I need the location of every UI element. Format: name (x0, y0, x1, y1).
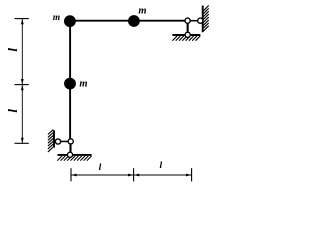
left dimension tick bottom (15, 142, 29, 144)
left dimension arrow up (below middle tick) (21, 85, 24, 90)
pin C (roller on ground) (67, 152, 72, 157)
label l (bottom right segment) (159, 161, 162, 171)
link pin B to pin C (69, 141, 71, 154)
wall left hatching (48, 130, 53, 152)
wall right hatching (203, 6, 208, 32)
svg-text:m: m (79, 78, 87, 89)
ground hatching under pin C (57, 156, 91, 161)
svg-text:m: m (138, 6, 146, 17)
mass m2 (ball on beam) (128, 15, 140, 27)
label m of mass m2 (138, 6, 146, 17)
pin E (roller to right wall) (198, 18, 203, 23)
link pin A to pin B (58, 140, 71, 142)
svg-text:m: m (53, 13, 60, 23)
label l (bottom left segment) (99, 163, 102, 173)
pin D (main pin at beam end) (185, 18, 190, 23)
left dimension arrow up (top) (21, 19, 24, 24)
bottom dimension tick left (70, 168, 72, 181)
bottom dimension arrow left (71, 174, 76, 177)
left dimension arrow down (above middle tick) (21, 79, 24, 84)
left dimension tick middle (15, 84, 29, 86)
wire: vertical column member (69, 20, 71, 141)
bottom dimension arrow into middle from right (134, 174, 139, 177)
mass m1 (corner ball) (64, 15, 76, 27)
wall left (support) (53, 130, 55, 147)
left dimension arrow down (bottom) (21, 138, 24, 143)
pin B (main pin at column base) (68, 139, 73, 144)
left dimension line (vertical) (21, 19, 23, 144)
mass m3 (ball on column) (64, 78, 76, 90)
label m of mass m1 (53, 13, 60, 23)
svg-text:l: l (99, 163, 102, 173)
svg-text:l: l (5, 109, 20, 113)
bottom dimension line (horizontal) (71, 174, 192, 176)
svg-text:l: l (5, 48, 20, 52)
ground under pin C (57, 154, 91, 156)
left dimension tick top (15, 18, 29, 20)
bottom dimension tick right (191, 168, 193, 181)
bottom dimension tick middle (133, 168, 135, 181)
wall right (support) (202, 6, 204, 33)
wire: horizontal beam member (70, 20, 188, 22)
label l (left lower segment) (5, 109, 20, 113)
ground under pin F (172, 34, 200, 36)
pin F (roller on ground) (185, 32, 190, 37)
bottom dimension arrow into middle from left (128, 174, 133, 177)
bottom dimension arrow right (186, 174, 191, 177)
label m of mass m3 (79, 78, 87, 89)
svg-text:l: l (159, 161, 162, 171)
link pin D to pin E (188, 20, 201, 22)
label l (left upper segment) (5, 48, 20, 52)
ground hatching under pin F (172, 36, 200, 41)
link pin D to pin F (187, 21, 189, 35)
pin A (roller to left wall) (55, 139, 60, 144)
